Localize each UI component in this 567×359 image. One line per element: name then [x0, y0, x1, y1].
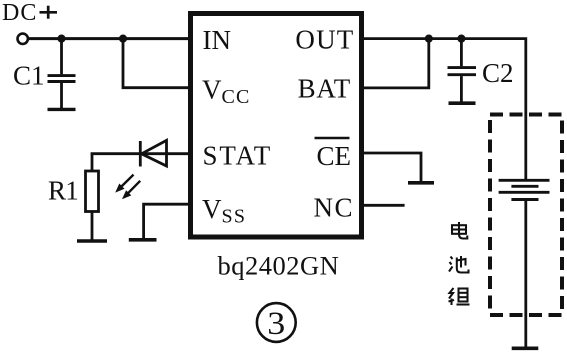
resistor R1: [86, 171, 99, 212]
junction: C2 tap: [457, 35, 465, 43]
svg-text:C1: C1: [13, 61, 45, 91]
ground (CE): [408, 181, 434, 185]
terminal DC+: [18, 34, 28, 44]
ground (R1): [77, 239, 107, 243]
wire: VSS: [144, 204, 190, 238]
ground (C1): [48, 108, 76, 111]
svg-text:CE: CE: [316, 141, 351, 171]
wire: OUT rail to battery: [362, 39, 526, 180]
svg-text:R1: R1: [48, 175, 78, 205]
svg-text:3: 3: [267, 306, 285, 342]
ground (VSS): [129, 238, 157, 242]
label 组 (battery pack, char 3): [449, 288, 470, 305]
wire: VCC branch: [123, 39, 190, 88]
svg-text:NC: NC: [313, 193, 354, 223]
label 池 (battery pack, char 2): [449, 256, 469, 273]
figure number 3 (circled): [257, 303, 296, 342]
svg-text:C2: C2: [482, 58, 514, 88]
capacitor C2: [448, 68, 477, 75]
wire: battery to ground: [524, 200, 527, 347]
junction: VCC tap: [119, 35, 127, 43]
wire: NC stub: [362, 204, 405, 207]
svg-text:BAT: BAT: [298, 74, 351, 104]
label 电 (battery pack, char 1): [452, 222, 467, 239]
wire: input rail: [28, 37, 190, 40]
LED D1: [140, 140, 166, 166]
svg-text:bq2402GN: bq2402GN: [218, 250, 340, 280]
battery BT1: [499, 180, 550, 199]
ground (battery): [512, 346, 539, 350]
ground (C2): [449, 101, 476, 105]
svg-text:DC: DC: [2, 0, 37, 26]
capacitor C1: [48, 76, 76, 82]
junction: BAT tap: [425, 35, 433, 43]
overline of CE: [315, 137, 350, 140]
wire: BAT: [362, 39, 429, 88]
wire: R1 top riser: [91, 154, 94, 172]
wire: R1 to ground: [91, 212, 94, 241]
svg-text:OUT: OUT: [295, 24, 354, 54]
wire: C2 to ground: [460, 76, 463, 102]
wire: C2 branch: [460, 39, 463, 67]
wire: C1 to ground: [60, 83, 63, 108]
wire: STAT to LED: [91, 152, 190, 155]
wire: CE: [362, 153, 421, 181]
svg-text:IN: IN: [203, 25, 232, 55]
wire: C1 branch: [60, 39, 63, 75]
junction: C1 tap: [57, 35, 65, 43]
LED emission arrows: [115, 175, 140, 200]
battery pack enclosure (dashed): [490, 115, 562, 316]
svg-text:STAT: STAT: [203, 141, 273, 171]
op-amp U1 bq2402GN body: [191, 14, 362, 238]
